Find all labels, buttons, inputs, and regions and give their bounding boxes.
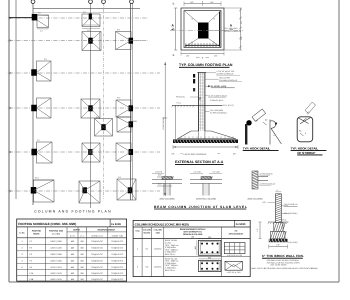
svg-text:0'9": 0'9" <box>172 153 175 156</box>
svg-text:T10@120 C/C: T10@120 C/C <box>111 266 124 269</box>
svg-text:T10@150 C/C: T10@150 C/C <box>91 272 104 275</box>
svg-text:6d: 6d <box>299 130 301 133</box>
svg-text:L/4+LDB: L/4+LDB <box>193 171 201 174</box>
svg-text:OF STIRRUP: OF STIRRUP <box>297 151 315 155</box>
svg-text:T8: T8 <box>191 41 193 44</box>
svg-text:S. No.: S. No. <box>19 232 25 235</box>
svg-text:1500 X 1500: 1500 X 1500 <box>50 260 62 263</box>
svg-text:P.C.C.: P.C.C. <box>177 101 183 104</box>
svg-text:ALONG Y (B): ALONG Y (B) <box>112 234 123 237</box>
svg-text:COLUMN SCHEDULE (CONC.MIX-M20): COLUMN SCHEDULE (CONC.MIX-M20) <box>135 222 189 226</box>
svg-text:Fe 500D: Fe 500D <box>111 223 121 226</box>
svg-text:T10@130 C/C: T10@130 C/C <box>91 278 104 281</box>
svg-text:230X600: 230X600 <box>154 266 161 269</box>
svg-text:T10@150 C/C: T10@150 C/C <box>111 247 124 250</box>
svg-text:T10@150 C/C: T10@150 C/C <box>91 247 104 250</box>
svg-text:NGL (NATURAL): NGL (NATURAL) <box>284 212 298 215</box>
svg-text:TYP. HOOK DETAIL: TYP. HOOK DETAIL <box>243 147 271 151</box>
svg-text:T10@150 C/C: T10@150 C/C <box>91 240 104 243</box>
svg-text:PL.LEVEL (+0.0): PL.LEVEL (+0.0) <box>211 85 227 88</box>
svg-text:T10@140 C/C: T10@140 C/C <box>91 253 104 256</box>
svg-text:6" THK BRICK WALL FDN.: 6" THK BRICK WALL FDN. <box>262 254 304 258</box>
svg-text:4d: 4d <box>265 119 267 122</box>
svg-text:T10@120 C/C: T10@120 C/C <box>91 266 104 269</box>
svg-text:1000 X 1675: 1000 X 1675 <box>50 272 62 275</box>
svg-text:TYP. COLUMN FOOTING PLAN: TYP. COLUMN FOOTING PLAN <box>179 63 233 67</box>
svg-text:B: B <box>173 54 175 57</box>
svg-text:T10@140 C/C: T10@140 C/C <box>111 253 124 256</box>
svg-text:150: 150 <box>214 55 217 58</box>
svg-text:FDN.FLOOR LVL: FDN.FLOOR LVL <box>284 203 298 206</box>
svg-text:T8: T8 <box>213 41 215 44</box>
svg-text:DEPTH: DEPTH <box>73 229 80 232</box>
svg-text:B: B <box>173 3 175 6</box>
svg-text:(CENTRAL COLUMN): (CENTRAL COLUMN) <box>196 197 216 200</box>
svg-text:(CONTINUED): (CONTINUED) <box>162 116 165 130</box>
svg-text:1350 X 1350: 1350 X 1350 <box>50 253 62 256</box>
svg-text:230: 230 <box>208 236 211 239</box>
svg-text:ALONG X (L): ALONG X (L) <box>92 234 103 237</box>
svg-text:T10@150 C/C: T10@150 C/C <box>111 240 124 243</box>
svg-text:2: 2 <box>199 97 201 101</box>
svg-text:1200 X 1200: 1200 X 1200 <box>50 247 62 250</box>
svg-text:FGL: FGL <box>263 201 267 204</box>
svg-text:MARK: MARK <box>33 233 40 236</box>
svg-text:F4B: F4B <box>30 278 34 281</box>
svg-text:EXTERNAL SECTION AT A-A: EXTERNAL SECTION AT A-A <box>175 160 224 164</box>
svg-text:FOOTING: FOOTING <box>32 230 42 233</box>
svg-text:T8: T8 <box>213 18 215 21</box>
svg-text:AS PER SCHEDULE: AS PER SCHEDULE <box>224 30 242 33</box>
svg-text:(END COLUMN): (END COLUMN) <box>160 197 175 200</box>
svg-text:REIN T8 c/c: REIN T8 c/c <box>165 269 175 272</box>
svg-text:Fe 500D: Fe 500D <box>236 223 246 226</box>
svg-text:F1A: F1A <box>30 272 34 275</box>
svg-text:COL. MIX (M20): COL. MIX (M20) <box>224 27 237 30</box>
svg-text:1000 X 1000: 1000 X 1000 <box>50 240 62 243</box>
svg-text:1-SET OF 4L TIES: 1-SET OF 4L TIES <box>227 271 242 274</box>
svg-text:L/4+LDB: L/4+LDB <box>212 171 220 174</box>
svg-text:D ( T ): D ( T ) <box>70 234 76 237</box>
svg-text:ARRANGEMENT: ARRANGEMENT <box>228 232 244 235</box>
svg-text:(END COLUMN): (END COLUMN) <box>248 197 263 200</box>
svg-text:( L ): ( L ) <box>80 234 84 237</box>
svg-text:FOOTING SCHEDULE (CONC. MIX. M: FOOTING SCHEDULE (CONC. MIX. M20) <box>18 222 76 226</box>
svg-text:1675 X 1675: 1675 X 1675 <box>50 266 62 269</box>
svg-text:F.G.L (P.C.C): F.G.L (P.C.C) <box>223 104 234 107</box>
svg-text:COLUMN: COLUMN <box>154 229 163 232</box>
svg-text:T10@150 C/C: T10@150 C/C <box>111 272 124 275</box>
svg-text:T10@130 C/C: T10@130 C/C <box>111 260 124 263</box>
svg-text:STIRRUPS @150: STIRRUPS @150 <box>210 99 224 102</box>
svg-text:450: 450 <box>194 246 197 249</box>
svg-text:(M): (M) <box>191 235 194 238</box>
svg-text:BEAM COLUMN JUNCTION AT SLAB L: BEAM COLUMN JUNCTION AT SLAB LEVEL <box>154 205 248 209</box>
svg-text:MARKS: MARKS <box>144 231 152 234</box>
svg-text:GR SL: GR SL <box>281 219 286 222</box>
svg-text:T10@130 C/C: T10@130 C/C <box>91 260 104 263</box>
svg-text:REIN T8 c/c: REIN T8 c/c <box>165 253 175 256</box>
svg-text:COLUMN: COLUMN <box>143 229 152 232</box>
svg-text:COLUMN AND FOOTING PLAN: COLUMN AND FOOTING PLAN <box>34 209 112 213</box>
svg-text:T8: T8 <box>191 18 193 21</box>
svg-text:1'-6": 1'-6" <box>276 244 280 247</box>
svg-text:(WALL FDN TO BE PROVIDED ONLY: (WALL FDN TO BE PROVIDED ONLY UNDER WALL… <box>251 267 318 270</box>
svg-text:1'-0": 1'-0" <box>256 228 259 232</box>
svg-text:d: d <box>305 132 306 135</box>
svg-text:LAP AS PER SCHEDULE: LAP AS PER SCHEDULE <box>184 153 208 156</box>
svg-text:FOOTING SIZE: FOOTING SIZE <box>49 230 64 233</box>
svg-text:1500 X 1675: 1500 X 1675 <box>50 278 62 281</box>
svg-text:T10@130 C/C: T10@130 C/C <box>111 278 124 281</box>
svg-text:( L x B ): ( L x B ) <box>52 233 60 236</box>
svg-text:150: 150 <box>186 55 189 58</box>
svg-text:AS PER SCHEDULE: AS PER SCHEDULE <box>210 112 228 115</box>
svg-text:NOT TO BE TAKEN: NOT TO BE TAKEN <box>271 264 288 267</box>
svg-text:PEDESTAL: PEDESTAL <box>176 96 185 99</box>
svg-text:REINFORCEMENT: REINFORCEMENT <box>98 229 116 232</box>
svg-text:+0.0 (SLAB): +0.0 (SLAB) <box>288 241 298 244</box>
svg-text:2-SETS OF 4L TIES: 2-SETS OF 4L TIES <box>227 254 243 257</box>
svg-text:230X450: 230X450 <box>154 247 161 250</box>
svg-text:230: 230 <box>208 256 211 259</box>
svg-text:0'9": 0'9" <box>233 153 236 156</box>
svg-text:L/4+LDB: L/4+LDB <box>155 171 163 174</box>
